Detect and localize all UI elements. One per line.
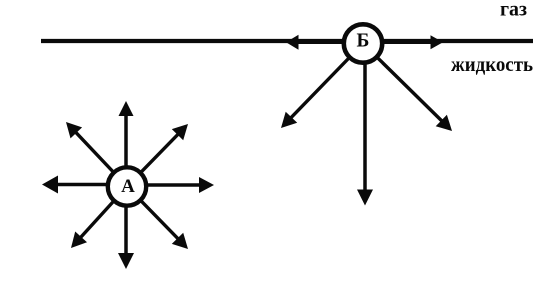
node A force arrow down-left (80, 187, 127, 239)
svg-text:А: А (121, 176, 135, 197)
node A force arrow down-right (127, 187, 179, 240)
node A force arrow left (57, 183, 128, 187)
node Б force arrow straight down into liquid (363, 45, 367, 191)
node Б force arrow down-right into liquid (363, 44, 442, 122)
svg-text:жидкость: жидкость (451, 52, 533, 76)
svg-text:газ: газ (500, 0, 527, 21)
node A force arrow up-left (75, 132, 127, 187)
node A force arrow up (124, 115, 128, 187)
wire surface line (liquid surface) (41, 39, 533, 43)
node A force arrow up-right (127, 134, 179, 187)
node Б molecule circle at surface (344, 24, 382, 62)
node Б force arrow down-left into liquid (290, 44, 363, 119)
node A molecule circle inside liquid (108, 167, 146, 205)
node A force arrow right (127, 183, 201, 187)
svg-text:Б: Б (357, 31, 370, 52)
node Б force arrow left along surface (297, 41, 346, 45)
node A force arrow down (124, 187, 128, 255)
node Б force arrow right along surface (380, 41, 432, 45)
